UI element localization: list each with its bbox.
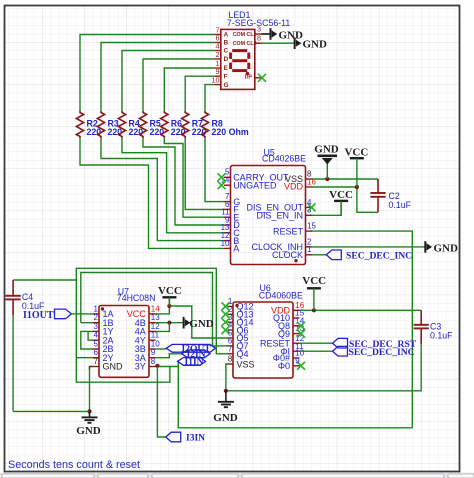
svg-text:1: 1 [94, 304, 99, 313]
wire: U7 pin 8 3Y run [156, 361, 179, 366]
svg-text:G: G [224, 82, 229, 89]
node junction VCC U7 [167, 304, 171, 308]
svg-text:0.1uF: 0.1uF [389, 200, 412, 210]
wire: LED1 segment A to R2 [80, 35, 214, 112]
node junction U6 VSS ground [224, 389, 228, 393]
svg-text:10: 10 [151, 339, 160, 348]
node junction VSS/GND [325, 177, 329, 181]
no-connect X on U6 pin 13 [297, 330, 305, 338]
wire: R8 to U5 pin G (7) [205, 138, 224, 202]
wire: LED1 pin 3 to GND flag [262, 33, 271, 35]
svg-text:COM CL1: COM CL1 [233, 32, 257, 38]
no-connect X on U5 pin 5 [218, 173, 226, 181]
svg-text:0.1uF: 0.1uF [430, 331, 453, 341]
ground symbol GND (above U5) [318, 156, 338, 165]
svg-text:GND: GND [279, 29, 304, 41]
net flag SEC_DEC_INC (U5 pin 1) [326, 250, 341, 260]
wire: VCC branch to U6 pin 5 [169, 306, 227, 338]
wire: LED1 segment B to R3 [101, 43, 214, 112]
svg-text:GND: GND [213, 412, 238, 424]
svg-text:A: A [224, 32, 229, 39]
svg-text:6: 6 [94, 348, 99, 357]
svg-text:I1OUT: I1OUT [23, 310, 54, 321]
wire: C4 ground run [13, 410, 89, 412]
svg-text:4: 4 [94, 331, 99, 340]
ground flag GND (U5 pin 2) [425, 241, 432, 253]
U6 pin1 marker dot [235, 304, 238, 307]
wire: LED1 segment F to R7 [185, 76, 214, 111]
wire: U6 VSS (pin 8) down [226, 364, 228, 391]
no-connect X on LED1 DP pin [258, 74, 266, 82]
no-connect X on U5 pin 4 [308, 203, 316, 211]
node junction U7 pins 13/12 [167, 321, 171, 325]
net flag SEC_DEC_INC (U6 pin 11) [333, 346, 348, 356]
power symbol VCC (above U7) [162, 297, 176, 306]
svg-text:GND: GND [76, 425, 101, 437]
capacitor C2 [370, 179, 385, 212]
svg-text:14: 14 [151, 304, 160, 313]
U5 right pin stubs and pin numbers [306, 169, 317, 254]
capacitor C3 [414, 310, 429, 344]
svg-text:10: 10 [221, 239, 230, 248]
wire: 3Y down to I3IN [157, 366, 165, 437]
svg-text:74HC08N: 74HC08N [117, 293, 156, 303]
node junction VDD/VCC [355, 185, 359, 189]
ground symbol GND (below U7) [82, 411, 98, 422]
svg-text:GND: GND [314, 143, 339, 155]
svg-text:2: 2 [94, 313, 99, 322]
svg-text:SEC_DEC_INC: SEC_DEC_INC [346, 250, 412, 261]
wire: U6 RESET (pin 12) to flag [300, 342, 333, 344]
wire: R4 to U5 pin C (13) [122, 138, 224, 233]
wire: LED1 segment E to R6 [164, 68, 214, 111]
svg-text:DP: DP [245, 75, 253, 81]
no-connect X on U6 pin 9 [297, 362, 305, 370]
wire: C3 bottom to ground run [226, 344, 421, 391]
LED1 seven-segment digit glyph [231, 51, 249, 71]
LED1 pin 3 stub [255, 33, 262, 35]
svg-text:3Y: 3Y [135, 362, 146, 372]
resistor R2 [76, 111, 83, 138]
ground symbol GND (below U6) [218, 391, 234, 407]
no-connect X on U6 pin 2 [222, 310, 230, 318]
net flag I3IN [166, 432, 181, 442]
U5 left pin stubs and pin numbers [221, 168, 231, 249]
node junction U6 VDD/VCC [312, 308, 316, 312]
svg-text:C: C [224, 48, 229, 55]
resistor R7 [182, 111, 189, 138]
wire: R3 to U5 pin B (12) [101, 138, 224, 241]
svg-text:2: 2 [216, 50, 220, 59]
resistor R8 [201, 111, 208, 138]
wire: outer loop (2Y net) top [76, 268, 227, 357]
wire: R7 to U5 pin F (6) [185, 138, 224, 209]
svg-text:I1IN: I1IN [185, 358, 204, 368]
op-amp U5 CD4026BE body [231, 166, 306, 265]
svg-text:Q4: Q4 [237, 349, 249, 359]
U5 left pin names [233, 173, 289, 254]
svg-text:8: 8 [257, 34, 261, 43]
wire: I1OUT to U7 pin 1 [72, 313, 93, 315]
wire: GND stem to VSS line [326, 164, 328, 180]
svg-text:I3IN: I3IN [186, 434, 205, 444]
ground flag GND (U7 pins 12/13) [184, 317, 191, 329]
svg-text:1: 1 [307, 245, 312, 254]
wire: U5 CLOCK_INH (pin 2) to GND flag [312, 246, 425, 248]
svg-text:5: 5 [94, 339, 99, 348]
wire: C4 bottom down to ground run [12, 315, 14, 411]
wire: U6 phi-I (pin 11) to flag [300, 350, 333, 352]
7-segment display LED1 body [221, 29, 255, 89]
svg-text:D: D [224, 56, 229, 63]
no-connect X on U6 pin 4 [222, 326, 230, 334]
counter IC U6 CD4060BE body [233, 302, 293, 378]
svg-text:DIS_EN_IN: DIS_EN_IN [256, 211, 303, 221]
svg-text:GND: GND [434, 242, 459, 254]
svg-text:GND: GND [189, 318, 214, 330]
svg-text:8: 8 [228, 355, 233, 364]
wire: U5 RESET (pin 15) net [312, 231, 412, 428]
no-connect X on U6 pin 1 [222, 302, 230, 310]
svg-text:VSS: VSS [237, 359, 255, 369]
wire: U7 pin 2 1B from loop [81, 322, 93, 324]
resistor R3 [97, 111, 104, 138]
U7 left pin names [103, 309, 124, 372]
LED1 segment pin names A-G [224, 32, 229, 89]
node junction U7 GND [87, 409, 91, 413]
wire: LED1 pin 8 to GND flag [262, 42, 295, 44]
no-connect X on U5 pin 14 [218, 181, 226, 189]
logic IC U7 74HC08N body [99, 306, 149, 378]
wire: inner loop (1B net) top [81, 273, 228, 346]
net flag I1IN [178, 358, 206, 366]
resistor R5 [139, 111, 146, 138]
U6 right pin names [260, 306, 291, 372]
wire: U7 pin 13 to GND flag [156, 322, 184, 324]
wire: U7 pin 6 2Y into loop [76, 357, 92, 359]
power symbol VCC (U5 pin 3) [334, 201, 348, 215]
svg-text:F: F [224, 73, 228, 80]
svg-text:Seconds tens count & reset: Seconds tens count & reset [8, 459, 140, 471]
svg-text:3: 3 [257, 25, 261, 34]
U7 pin1 marker dot [101, 307, 104, 310]
ground flag GND (LED1 pin 8) [295, 37, 302, 49]
svg-text:0.1uF: 0.1uF [22, 301, 45, 311]
wire: LED1 segment G to R8 [205, 85, 214, 111]
power symbol VCC (above U6) [307, 288, 321, 310]
U6 left pin names [237, 302, 255, 370]
svg-text:10: 10 [212, 75, 220, 84]
wire: U5 VDD (pin 16) line [312, 186, 357, 188]
svg-text:VCC: VCC [344, 146, 368, 158]
wire: U5 CLOCK (pin 1) to flag [312, 254, 326, 256]
U7 left pin stubs and numbers [93, 304, 100, 366]
net flag I1OUT [55, 309, 72, 319]
no-connect X on U6 pin 3 [222, 318, 230, 326]
svg-text:8: 8 [151, 357, 156, 366]
svg-text:B: B [224, 40, 229, 47]
svg-text:VCC: VCC [158, 285, 182, 297]
svg-text:Φ0: Φ0 [278, 361, 290, 371]
wire: U7 1Y to 2B loop [81, 331, 93, 349]
svg-text:E: E [224, 65, 228, 72]
wire: U7 pin 10 to I2OUT [156, 348, 167, 350]
svg-text:220 Ohm: 220 Ohm [212, 127, 249, 137]
wire: U6 VDD line to C3 top [300, 309, 422, 311]
node junction U7 pin 8 [155, 364, 159, 368]
wire: C4 top to 2Y loop [13, 279, 76, 281]
wire: 3Y to reset vertical [178, 367, 412, 428]
wire: R2 to U5 pin A (10) [80, 138, 224, 248]
wire: LED1 segment D to R5 [143, 59, 214, 111]
svg-text:3: 3 [94, 322, 99, 331]
net flag I2OUT [166, 344, 215, 352]
svg-text:VCC: VCC [329, 189, 353, 201]
wire: U7 VCC pin 14 up [156, 297, 170, 314]
resistor R4 [118, 111, 125, 138]
svg-text:SEC_DEC_INC: SEC_DEC_INC [349, 347, 415, 358]
svg-text:7: 7 [94, 357, 99, 366]
wire: C2 bottom to VDD junction [357, 187, 378, 212]
svg-text:CD4026BE: CD4026BE [262, 153, 306, 163]
U6 right pin stubs and numbers [293, 301, 305, 366]
svg-text:7: 7 [228, 344, 233, 353]
power symbol VCC (right of U5) [350, 158, 364, 187]
U5 right pin names [246, 174, 303, 260]
U7 right pin names [127, 309, 147, 372]
U7 right pin stubs and numbers [149, 304, 160, 366]
svg-text:A: A [233, 244, 239, 254]
wire: U7 GND pin down [89, 370, 91, 412]
capacitor C4 [6, 280, 21, 315]
svg-text:15: 15 [307, 222, 316, 231]
LED1 pin 8 stub [255, 42, 262, 44]
svg-text:VCC: VCC [302, 275, 326, 287]
svg-text:GND: GND [103, 362, 124, 372]
wire: LED1 segment C to R4 [122, 51, 214, 112]
bottom application tab bar [0, 473, 474, 478]
wire: U5 DIS_EN_IN (pin 3) to VCC [312, 201, 341, 215]
wire: U7 pin 13 to pin 12 tie [156, 323, 170, 332]
net flag SEC_DEC_RST [333, 338, 348, 348]
ground flag GND (LED1 pin 3) [271, 28, 278, 40]
svg-text:9: 9 [151, 348, 156, 357]
svg-text:GND: GND [303, 39, 328, 51]
svg-text:COM CL2: COM CL2 [233, 41, 257, 47]
wire: U7 pin 9 to I2IN [156, 354, 182, 358]
svg-text:CLOCK: CLOCK [272, 250, 303, 260]
svg-text:VDD: VDD [284, 182, 304, 192]
U5 clock marker dot [294, 259, 297, 262]
wire: U5 VSS (pin 8) to C2 top [312, 178, 378, 180]
svg-text:UNGATED: UNGATED [233, 181, 277, 191]
wire: R6 to U5 pin E (11) [164, 138, 224, 217]
U6 left pin stubs and numbers [228, 297, 234, 364]
resistor R6 [161, 111, 168, 138]
no-connect X on U6 pin 14 [297, 322, 305, 330]
svg-text:RESET: RESET [273, 226, 304, 236]
net flag I2IN [182, 350, 210, 358]
LED1 DP pin stub [255, 77, 262, 79]
LED1 left pin stubs and numbers [212, 25, 221, 84]
wire: R5 to U5 pin D (9) [143, 138, 224, 225]
svg-text:CD4060BE: CD4060BE [259, 291, 303, 301]
wire: 2Y bottom link [76, 358, 170, 383]
svg-text:Q9: Q9 [278, 329, 290, 339]
wire: U7 1Y to 2A jog [88, 331, 92, 340]
wire: U7 GND pin elbow [90, 367, 93, 370]
